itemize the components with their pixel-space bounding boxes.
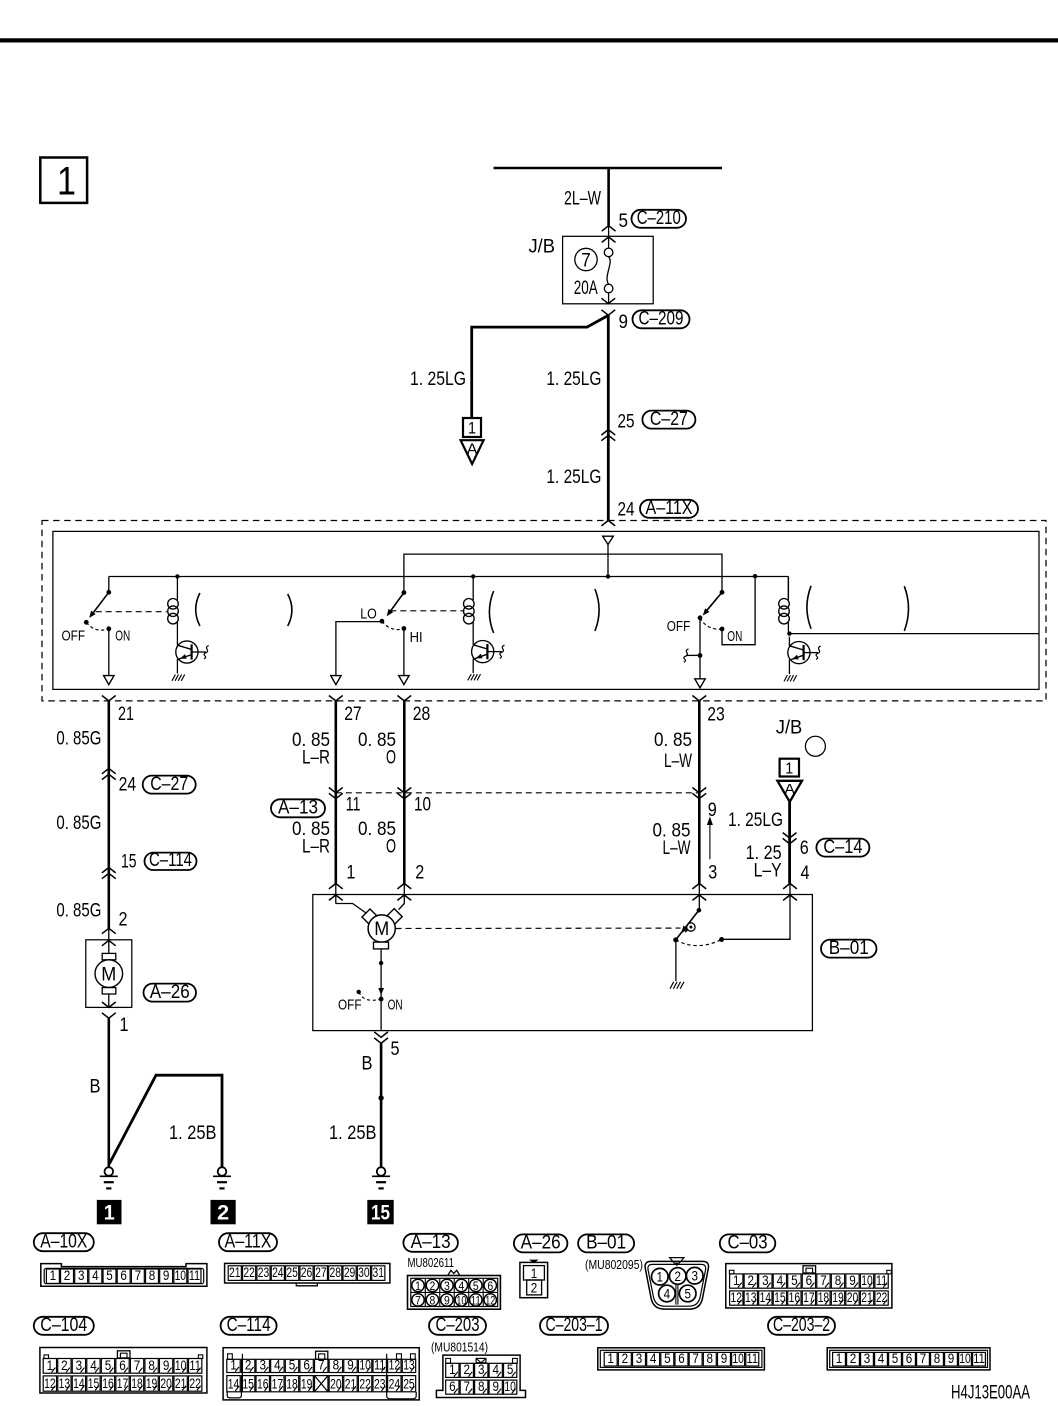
- svg-text:12: 12: [731, 1290, 743, 1305]
- switch feed wire to LO-HI and washer switch: [404, 554, 722, 593]
- label B-01: [821, 940, 877, 958]
- svg-text:C–210: C–210: [637, 208, 681, 229]
- pin 27 exit: [329, 696, 343, 701]
- svg-text:7: 7: [920, 1351, 927, 1366]
- svg-text:A–26: A–26: [521, 1233, 561, 1254]
- svg-text:26: 26: [301, 1265, 313, 1280]
- connector C-27 pin 24: [102, 768, 116, 773]
- svg-text:24: 24: [119, 774, 137, 796]
- svg-text:14: 14: [73, 1376, 85, 1391]
- svg-text:O: O: [386, 836, 396, 858]
- label A-26: [514, 1234, 568, 1252]
- svg-text:23: 23: [258, 1265, 270, 1280]
- svg-text:10: 10: [456, 1293, 466, 1307]
- internal bus wire: [109, 576, 789, 578]
- wiper relay coil 2: [471, 574, 475, 578]
- connector C-209 pin 9: [601, 298, 615, 303]
- connector C-104 drawing: [40, 1348, 207, 1394]
- to-diagram reference 1-A right: [780, 759, 799, 777]
- svg-text:C–209: C–209: [639, 309, 684, 330]
- park switch B-01: [697, 908, 702, 913]
- svg-text:L–W: L–W: [664, 750, 692, 772]
- svg-text:4: 4: [878, 1351, 885, 1366]
- battery feed bus: [494, 167, 723, 170]
- svg-text:10: 10: [959, 1351, 971, 1366]
- label C-104: [34, 1317, 94, 1335]
- svg-text:3: 3: [444, 1279, 450, 1293]
- svg-text:18: 18: [131, 1376, 143, 1391]
- svg-text:4: 4: [92, 1268, 99, 1283]
- svg-text:15: 15: [371, 1201, 390, 1225]
- label A-11X: [219, 1233, 277, 1251]
- svg-text:3: 3: [864, 1351, 871, 1366]
- connector B-01 drawing: [670, 1258, 684, 1264]
- svg-text:2: 2: [119, 909, 128, 931]
- svg-text:C–27: C–27: [150, 774, 188, 795]
- figure number 1 box: [40, 158, 87, 203]
- svg-text:25: 25: [286, 1265, 298, 1280]
- svg-text:3: 3: [636, 1351, 643, 1366]
- svg-text:2: 2: [850, 1351, 857, 1366]
- pin 24 entry triangle: [603, 536, 614, 544]
- svg-text:12: 12: [44, 1376, 56, 1391]
- svg-text:8: 8: [430, 1293, 436, 1307]
- svg-text:C–03: C–03: [728, 1233, 768, 1254]
- svg-text:11: 11: [189, 1268, 201, 1283]
- column switch inner box: [53, 531, 1039, 689]
- label C-03: [720, 1234, 776, 1252]
- pin 21 exit: [102, 696, 116, 701]
- svg-text:A: A: [467, 441, 479, 458]
- svg-text:L–W: L–W: [663, 837, 691, 859]
- svg-text:HI: HI: [410, 630, 423, 646]
- svg-text:4: 4: [458, 1279, 464, 1293]
- svg-text:14: 14: [760, 1290, 772, 1305]
- svg-text:9: 9: [444, 1293, 450, 1307]
- intermittent contact OFF-ON: [357, 990, 361, 994]
- svg-text:27: 27: [344, 703, 362, 725]
- svg-text:ON: ON: [115, 629, 130, 645]
- svg-text:11: 11: [747, 1351, 759, 1366]
- connector C-114 pin 15: [102, 868, 116, 873]
- svg-text:25: 25: [403, 1377, 415, 1392]
- svg-text:23: 23: [374, 1377, 386, 1392]
- svg-text:17: 17: [803, 1290, 815, 1305]
- front wiper motor A-26 entry: [102, 928, 116, 933]
- svg-text:2: 2: [245, 1357, 252, 1372]
- svg-text:6: 6: [120, 1268, 127, 1283]
- svg-text:7: 7: [581, 250, 591, 272]
- label B-01 connector: [578, 1234, 634, 1252]
- svg-text:A–11X: A–11X: [225, 1231, 272, 1252]
- svg-text:C–114: C–114: [149, 850, 192, 871]
- wire 1.25B jumper: [109, 1075, 222, 1167]
- label A-26: [144, 984, 197, 1002]
- svg-text:25: 25: [618, 411, 635, 433]
- svg-text:0. 85G: 0. 85G: [56, 812, 101, 834]
- svg-text:16: 16: [257, 1377, 269, 1392]
- washer switch OFF-ON: [720, 590, 725, 595]
- B-01 pin 4 entry: [783, 884, 797, 889]
- svg-text:A–26: A–26: [150, 982, 190, 1003]
- svg-text:6: 6: [800, 837, 809, 859]
- svg-text:6: 6: [487, 1279, 493, 1293]
- svg-text:2: 2: [415, 862, 424, 884]
- svg-text:18: 18: [818, 1290, 830, 1305]
- svg-text:A–10X: A–10X: [40, 1231, 87, 1252]
- ground tag 2: [211, 1200, 235, 1223]
- connector C-14 pin 6 4: [783, 833, 797, 838]
- svg-text:2L–W: 2L–W: [564, 188, 601, 210]
- connector C-27 pin 25: [601, 430, 615, 435]
- connector C-203-1 drawing: [598, 1348, 765, 1370]
- svg-text:28: 28: [329, 1265, 341, 1280]
- svg-text:4: 4: [650, 1351, 657, 1366]
- svg-text:M: M: [101, 964, 116, 985]
- transistor Q2: [472, 641, 494, 663]
- svg-text:11: 11: [374, 1357, 386, 1372]
- svg-text:MU802611: MU802611: [408, 1256, 455, 1270]
- svg-text:21: 21: [861, 1290, 873, 1305]
- column switch dashed enclosure: [42, 521, 1046, 701]
- transistor Q1: [176, 641, 198, 663]
- svg-text:L–R: L–R: [302, 836, 330, 858]
- ground tag 1: [97, 1200, 121, 1223]
- svg-text:1: 1: [120, 1014, 129, 1036]
- svg-text:21: 21: [175, 1376, 187, 1391]
- svg-text:17: 17: [117, 1376, 129, 1391]
- svg-text:B–01: B–01: [829, 938, 869, 959]
- svg-text:O: O: [386, 747, 396, 769]
- svg-text:9: 9: [721, 1351, 728, 1366]
- fuse 7 20A: [575, 248, 597, 270]
- svg-text:2: 2: [622, 1351, 629, 1366]
- svg-text:21: 21: [345, 1377, 357, 1392]
- svg-text:3: 3: [708, 862, 717, 884]
- motor M symbol B-01: [336, 904, 366, 914]
- svg-text:24: 24: [389, 1377, 401, 1392]
- svg-text:6: 6: [906, 1351, 913, 1366]
- svg-text:19: 19: [146, 1376, 158, 1391]
- wiper speed switch LO-HI: [402, 590, 407, 595]
- svg-text:4: 4: [664, 1286, 671, 1301]
- svg-text:1: 1: [57, 160, 76, 204]
- svg-text:9: 9: [619, 311, 629, 333]
- direction arrow up: [709, 822, 711, 860]
- label C-114: [221, 1317, 277, 1335]
- svg-text:2: 2: [64, 1268, 71, 1283]
- svg-text:A: A: [784, 782, 795, 798]
- label C-203-2: [768, 1317, 835, 1335]
- svg-text:C–27: C–27: [650, 409, 688, 430]
- svg-text:3: 3: [691, 1269, 698, 1284]
- svg-text:OFF: OFF: [62, 629, 86, 645]
- svg-text:22: 22: [359, 1377, 371, 1392]
- svg-text:8: 8: [707, 1351, 714, 1366]
- wire B to ground 15: [380, 1043, 383, 1167]
- label A-10X: [34, 1233, 94, 1251]
- svg-text:16: 16: [789, 1290, 801, 1305]
- pin 28 exit: [397, 696, 411, 701]
- connector A-11X drawing: [225, 1263, 390, 1283]
- svg-text:20: 20: [160, 1376, 172, 1391]
- svg-text:1. 25B: 1. 25B: [169, 1122, 217, 1144]
- svg-text:16: 16: [102, 1376, 114, 1391]
- svg-text:20A: 20A: [574, 277, 598, 299]
- svg-text:1: 1: [104, 1201, 115, 1225]
- ground 1: [105, 1167, 114, 1176]
- svg-text:1: 1: [346, 862, 355, 884]
- label A-13: [403, 1234, 458, 1252]
- svg-text:B–01: B–01: [586, 1233, 626, 1254]
- connector A-26 drawing: [531, 1260, 537, 1262]
- svg-text:ON: ON: [727, 629, 742, 645]
- svg-text:7: 7: [692, 1351, 699, 1366]
- svg-text:13: 13: [403, 1357, 415, 1372]
- svg-text:2: 2: [217, 1201, 229, 1225]
- svg-text:19: 19: [832, 1290, 844, 1305]
- svg-text:J/B: J/B: [776, 717, 803, 739]
- svg-text:13: 13: [59, 1376, 71, 1391]
- svg-text:17: 17: [272, 1377, 284, 1392]
- svg-text:10: 10: [359, 1357, 371, 1372]
- svg-text:5: 5: [619, 210, 629, 232]
- svg-text:OFF: OFF: [338, 997, 362, 1013]
- svg-text:5: 5: [664, 1351, 671, 1366]
- svg-text:31: 31: [373, 1265, 385, 1280]
- connector A-13 pin 9: [692, 788, 706, 793]
- park switch dashed link: [396, 927, 681, 929]
- svg-text:6: 6: [678, 1351, 685, 1366]
- svg-text:13: 13: [745, 1290, 757, 1305]
- label C-203-1: [540, 1317, 608, 1335]
- junction block J/B: [563, 236, 654, 303]
- washer relay coil 3: [787, 577, 789, 599]
- svg-text:21: 21: [229, 1265, 241, 1280]
- svg-text:10: 10: [732, 1351, 744, 1366]
- ground 3: [377, 1167, 386, 1176]
- svg-text:8: 8: [149, 1268, 156, 1283]
- wiper relay coil 1: [175, 574, 179, 578]
- svg-text:9: 9: [347, 1357, 354, 1372]
- svg-text:12: 12: [389, 1357, 401, 1372]
- svg-text:5: 5: [289, 1357, 296, 1372]
- svg-text:B: B: [362, 1053, 373, 1075]
- svg-text:10: 10: [861, 1273, 873, 1288]
- svg-text:ON: ON: [388, 997, 403, 1013]
- svg-text:1. 25B: 1. 25B: [329, 1122, 377, 1144]
- svg-text:15: 15: [774, 1290, 786, 1305]
- svg-text:20: 20: [330, 1377, 342, 1392]
- svg-text:1: 1: [50, 1268, 57, 1283]
- wiper switch OFF-ON: [108, 577, 110, 593]
- wire 1.25LG right: [788, 802, 791, 884]
- svg-text:9: 9: [163, 1268, 170, 1283]
- svg-text:C–104: C–104: [40, 1315, 87, 1336]
- svg-text:C–203: C–203: [436, 1315, 480, 1336]
- svg-text:A–13: A–13: [411, 1232, 451, 1253]
- svg-text:15: 15: [121, 851, 137, 873]
- svg-text:2: 2: [531, 1281, 538, 1296]
- svg-text:30: 30: [358, 1265, 370, 1280]
- svg-text:5: 5: [892, 1351, 899, 1366]
- svg-text:0. 85: 0. 85: [654, 729, 692, 751]
- svg-text:2: 2: [430, 1279, 436, 1293]
- svg-text:OFF: OFF: [667, 619, 691, 635]
- svg-text:1. 25LG: 1. 25LG: [728, 809, 783, 831]
- svg-text:B: B: [90, 1076, 101, 1098]
- svg-text:C–14: C–14: [823, 837, 862, 858]
- svg-text:C–114: C–114: [227, 1315, 271, 1336]
- svg-text:4: 4: [801, 862, 810, 884]
- transistor Q3: [788, 642, 810, 664]
- svg-text:9: 9: [948, 1351, 955, 1366]
- dashed link switch to coil 1: [96, 611, 169, 613]
- svg-text:(MU801514): (MU801514): [431, 1341, 488, 1355]
- svg-text:24: 24: [272, 1265, 284, 1280]
- svg-text:7: 7: [318, 1357, 325, 1372]
- svg-text:1: 1: [607, 1351, 614, 1366]
- svg-text:C–203–1: C–203–1: [546, 1315, 603, 1336]
- svg-text:10: 10: [414, 794, 431, 816]
- svg-text:C–203–2: C–203–2: [773, 1315, 830, 1336]
- wire 1.25LG main: [607, 315, 610, 520]
- connector C-203-2 drawing: [827, 1348, 990, 1370]
- page header rule: [0, 38, 1058, 42]
- svg-text:1: 1: [785, 760, 793, 777]
- label C-203: [429, 1317, 486, 1335]
- svg-text:21: 21: [118, 703, 134, 725]
- connector C-03 drawing: [726, 1264, 892, 1308]
- B-01 pin 5 exit: [374, 1032, 388, 1037]
- svg-text:23: 23: [707, 704, 725, 726]
- svg-text:7: 7: [415, 1293, 421, 1307]
- svg-text:14: 14: [228, 1377, 240, 1392]
- svg-text:20: 20: [847, 1290, 859, 1305]
- svg-text:12: 12: [485, 1293, 495, 1307]
- wire 2L-W: [607, 168, 610, 226]
- svg-text:H4J13E00AA: H4J13E00AA: [951, 1383, 1030, 1404]
- svg-text:1: 1: [230, 1357, 237, 1372]
- svg-text:3: 3: [78, 1268, 85, 1283]
- ground tag 15: [368, 1200, 393, 1223]
- svg-text:11: 11: [471, 1293, 481, 1307]
- svg-text:A–13: A–13: [278, 798, 318, 819]
- svg-text:11: 11: [346, 794, 361, 816]
- svg-text:5: 5: [473, 1279, 479, 1293]
- dashed link switch to coil 2: [390, 610, 464, 612]
- svg-text:1. 25LG: 1. 25LG: [546, 466, 601, 488]
- svg-text:28: 28: [413, 703, 431, 725]
- svg-text:1: 1: [836, 1351, 843, 1366]
- svg-text:L–R: L–R: [302, 747, 330, 769]
- svg-text:1. 25LG: 1. 25LG: [410, 368, 466, 390]
- svg-text:11: 11: [189, 1358, 201, 1373]
- svg-text:8: 8: [934, 1351, 941, 1366]
- svg-text:1: 1: [468, 419, 476, 438]
- front wiper motor exit pin 1: [102, 1002, 116, 1007]
- connector C-203 drawing: [436, 1355, 525, 1397]
- svg-text:11: 11: [876, 1273, 888, 1288]
- svg-text:2: 2: [674, 1269, 681, 1284]
- svg-text:10: 10: [504, 1379, 516, 1394]
- svg-text:M: M: [374, 919, 389, 940]
- to-diagram reference 1-A left: [463, 418, 481, 437]
- svg-text:(MU802095): (MU802095): [585, 1258, 643, 1272]
- svg-text:27: 27: [315, 1265, 327, 1280]
- svg-text:10: 10: [175, 1358, 187, 1373]
- wire B to ground: [108, 1018, 111, 1167]
- svg-text:5: 5: [106, 1268, 113, 1283]
- svg-text:1: 1: [415, 1279, 421, 1293]
- svg-text:22: 22: [243, 1265, 255, 1280]
- motor M symbol A-26: [102, 953, 116, 959]
- svg-text:18: 18: [286, 1377, 298, 1392]
- svg-text:1: 1: [657, 1270, 664, 1285]
- svg-text:1: 1: [531, 1266, 538, 1281]
- svg-text:15: 15: [88, 1376, 100, 1391]
- wiper motor B-01 box: [313, 895, 813, 1031]
- svg-text:10: 10: [175, 1268, 187, 1283]
- svg-text:3: 3: [260, 1357, 267, 1372]
- svg-text:24: 24: [618, 499, 635, 521]
- pin 23 exit: [692, 696, 706, 701]
- connector A-13 drawing: [448, 1270, 460, 1275]
- svg-text:15: 15: [242, 1377, 254, 1392]
- svg-text:22: 22: [876, 1290, 888, 1305]
- svg-text:6: 6: [303, 1357, 310, 1372]
- svg-text:29: 29: [344, 1265, 356, 1280]
- svg-text:9: 9: [708, 799, 717, 821]
- motor output wire: [380, 949, 382, 999]
- connector A-10X drawing: [41, 1264, 207, 1287]
- connector A-13 pins 11 10: [329, 788, 343, 793]
- wire 1.25LG branch: [472, 315, 609, 417]
- connector C-114 drawing: [223, 1348, 419, 1400]
- connector C-210 pin 5: [602, 226, 616, 231]
- svg-text:LO: LO: [360, 606, 377, 622]
- front wiper motor A-26 box: [86, 940, 132, 1008]
- svg-text:A–11X: A–11X: [646, 498, 693, 519]
- svg-text:J/B: J/B: [529, 236, 556, 258]
- svg-text:5: 5: [684, 1286, 691, 1301]
- svg-text:0. 85G: 0. 85G: [56, 728, 101, 750]
- svg-text:5: 5: [391, 1038, 400, 1060]
- svg-text:8: 8: [333, 1357, 340, 1372]
- ground 2: [218, 1167, 227, 1176]
- svg-text:22: 22: [189, 1376, 201, 1391]
- svg-text:0. 85G: 0. 85G: [56, 900, 101, 922]
- svg-text:7: 7: [135, 1268, 142, 1283]
- svg-text:19: 19: [301, 1377, 313, 1392]
- svg-text:1. 25LG: 1. 25LG: [546, 368, 601, 390]
- svg-text:11: 11: [973, 1351, 985, 1366]
- svg-text:L–Y: L–Y: [754, 860, 782, 882]
